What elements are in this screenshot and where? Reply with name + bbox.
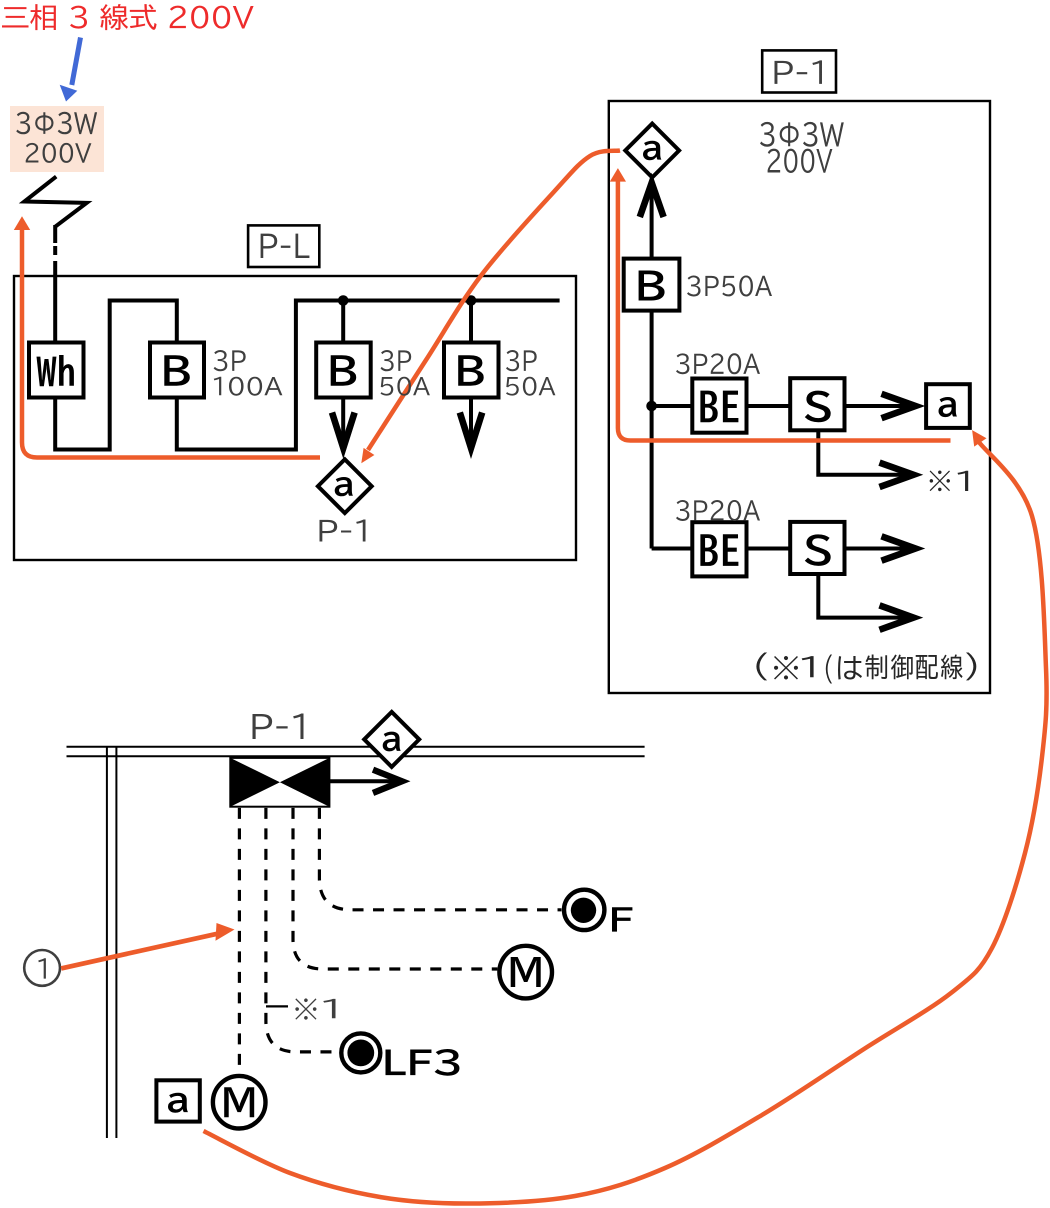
label: 1 of ※1 floor plan <box>323 999 335 1018</box>
label: BE breaker 1 letters <box>700 391 738 423</box>
label: a in floor plan box <box>168 1093 188 1113</box>
label: ※ of ※1 floor plan <box>295 998 316 1019</box>
BE breaker 2 box <box>692 522 746 576</box>
label: note close paren <box>966 652 976 680</box>
breaker B 50A#1 box <box>316 343 371 398</box>
tick for ※1 <box>266 1005 288 1007</box>
feeder arrow down from 50A#2 <box>469 398 473 447</box>
junction dot 1 <box>338 295 349 306</box>
breaker B 50A#2 box <box>444 343 499 398</box>
junction dot branch 1 <box>646 401 657 412</box>
dashed circuit 3 to M <box>293 808 497 969</box>
wire BE1 to S1 <box>747 404 791 408</box>
label: panel name P-1 <box>774 60 821 84</box>
feeder arrow down from 50A#1 <box>341 398 345 447</box>
label: a in small box (P-1) <box>939 397 957 417</box>
label: main breaker B letter (P-1) <box>639 271 665 301</box>
incoming diamond a (P-1) <box>625 124 679 178</box>
label: ※ of ※1 tag (P-1) <box>930 471 950 492</box>
wire Wh to bus loop <box>55 301 177 450</box>
label: 3P50A <box>687 275 772 296</box>
arrow out of S2 <box>845 547 914 551</box>
label: note 御 <box>891 655 913 680</box>
label: a in P-L feeder diamond <box>335 477 353 496</box>
small box a (P-1) <box>926 384 970 428</box>
floor plan wall horizontal double line <box>67 747 645 757</box>
label: 50A #1 <box>381 377 430 396</box>
control wire from S1 down right arrow ※1 <box>818 430 911 475</box>
label: 3Φ3W (P-1) <box>760 122 844 147</box>
blue arrow from red label to service label <box>60 38 81 102</box>
label: breaker B letter (100A) <box>164 355 190 385</box>
wire bus to B 50A#1 <box>341 301 345 343</box>
label: LF3 <box>385 1049 459 1076</box>
wire main breaker down to branches <box>650 311 654 549</box>
label: note は <box>838 656 862 679</box>
label: 200V (P-1) <box>768 149 833 173</box>
label: F fan motor <box>612 907 632 931</box>
outlet symbol LF3 (circle with dot) <box>341 1033 380 1072</box>
motor symbol M bottom <box>213 1076 266 1129</box>
main breaker B box (P-1) <box>624 259 680 311</box>
label: 3P20A branch 2 <box>676 500 760 521</box>
label: 1 of ※1 tag (P-1) <box>957 471 968 491</box>
motor symbol M right <box>499 946 552 999</box>
label: BE breaker 2 letters <box>700 534 738 566</box>
P-1 panel label box <box>762 50 836 92</box>
wire bus to B 50A#2 <box>469 301 473 343</box>
Wh meter box <box>29 343 84 398</box>
floor plan diamond a on wall <box>364 712 419 767</box>
label: 3P (100A breaker) <box>214 350 246 371</box>
label: breaker B letter (50A #2) <box>458 355 484 385</box>
P-1 panel outline <box>609 101 990 693</box>
switch S2 box <box>790 522 844 574</box>
label: M motor right <box>511 957 541 987</box>
label: M motor bottom <box>224 1087 254 1117</box>
label: 3Φ3W (service) <box>16 112 97 135</box>
label: 1 in circled-one <box>38 958 46 978</box>
label: note ※ <box>774 656 798 680</box>
dashed circuit 4 to F <box>319 808 561 910</box>
wire junction to BE2 <box>652 547 693 551</box>
label: note open paren <box>756 652 767 680</box>
orange big curve from floor a-box to P-1 outlet a <box>204 430 1047 1203</box>
outlet symbol F (circle with dot) <box>564 890 604 930</box>
label: 200V (service) <box>26 143 92 163</box>
label: 3P (50A #1) <box>381 350 412 371</box>
distribution board symbol (filled bowtie rect) <box>230 758 329 807</box>
switch S1 box <box>790 378 844 430</box>
label: note 1 <box>802 656 814 677</box>
feeder diamond a (P-L) <box>318 459 372 513</box>
floor plan wall vertical double line <box>107 747 117 1138</box>
pink highlight box 3Φ3W 200V <box>10 106 104 172</box>
orange up arrow inside P-1 <box>610 168 951 440</box>
junction dot 2 <box>466 295 477 306</box>
label: service type red text 三相3線式200V <box>2 4 254 30</box>
label: 3P (50A #2) <box>506 350 537 371</box>
label: a in floor plan diamond <box>383 732 401 752</box>
orange arrow callout 1 to dashed line <box>61 923 235 971</box>
label: P-1 floor plan <box>253 713 304 739</box>
control wire from S2 down right arrow <box>818 574 911 618</box>
BE breaker 1 box <box>692 379 746 433</box>
service entry zigzag symbol <box>24 177 86 227</box>
wire BE2 to S2 <box>747 547 791 551</box>
floor plan small box a <box>156 1080 199 1121</box>
P-L panel label box <box>248 225 319 267</box>
service drop dash-dot line <box>53 225 57 343</box>
label: note 制 <box>865 655 887 680</box>
label: note 線 <box>941 654 963 679</box>
label: breaker B letter (50A #1) <box>331 355 357 385</box>
label: note 配 <box>916 655 938 679</box>
dashed circuit 2 to LF3 <box>266 808 339 1052</box>
label: note small paren <box>826 654 832 683</box>
label: panel name P-L <box>261 234 310 258</box>
wire junction to BE1 <box>652 404 693 408</box>
label: 3P20A branch 1 <box>676 353 760 374</box>
label: S switch 2 letter <box>805 534 831 566</box>
wire B100A to bus <box>177 301 560 450</box>
breaker B 100A box <box>150 343 204 398</box>
label: 100A <box>214 377 283 396</box>
orange feeder line up-arrow left of P-L <box>14 216 320 457</box>
label: S switch 1 letter <box>805 391 831 423</box>
arrow up from main breaker to diamond <box>650 184 654 259</box>
label: P-1 under diamond <box>320 519 366 541</box>
dashed circuit 1 to M bottom <box>238 808 241 1074</box>
orange curve P-1 diamond to P-L diamond <box>361 151 620 464</box>
circled 1 callout <box>24 950 60 986</box>
label: 50A #2 <box>506 377 555 396</box>
arrow right from distribution board <box>329 779 400 783</box>
label: Wh meter letters <box>37 355 74 386</box>
arrow S1 to outlet a <box>845 404 914 408</box>
P-L panel outline <box>14 276 576 560</box>
label: a in P-1 incoming diamond <box>643 141 661 160</box>
